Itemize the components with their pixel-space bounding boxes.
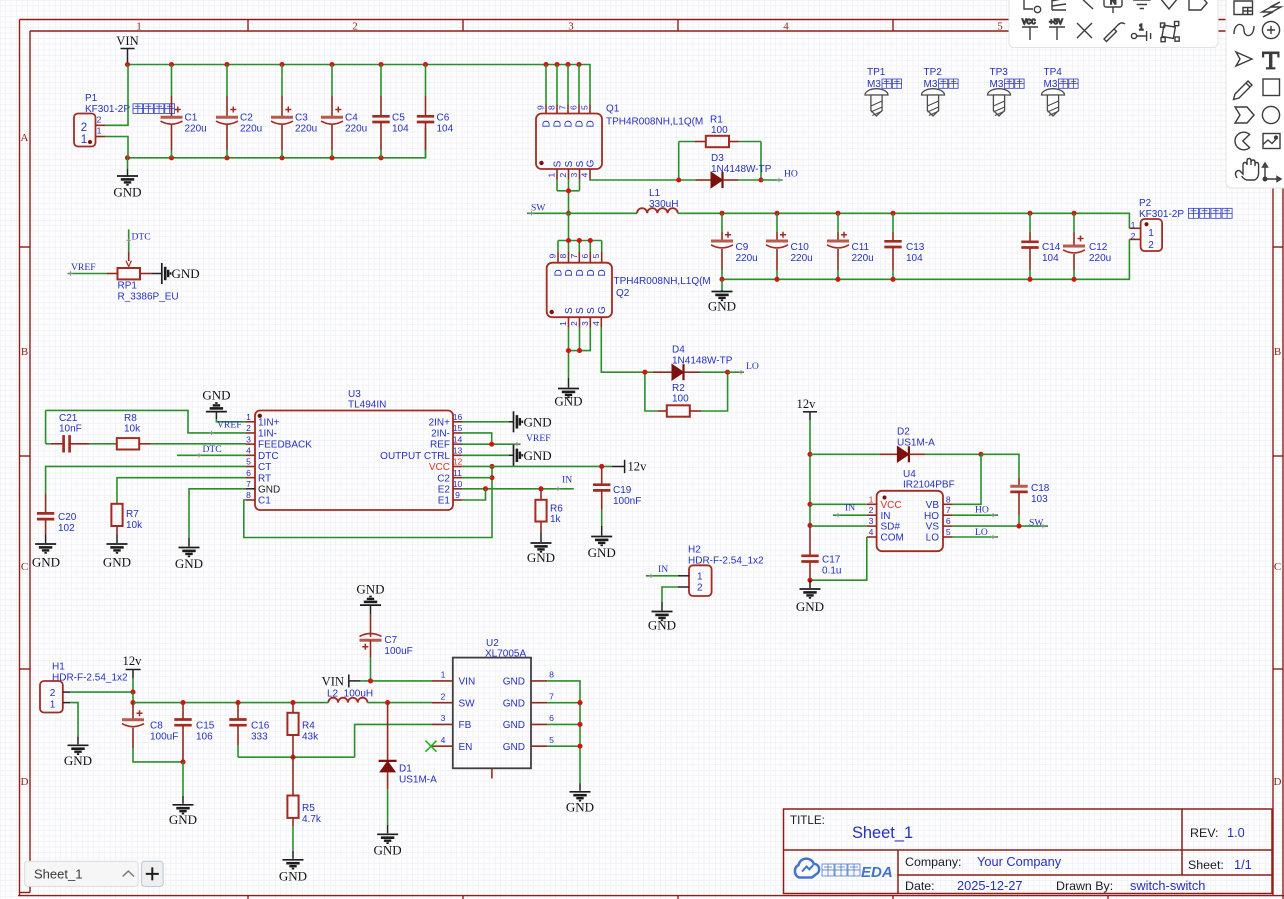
svg-text:D4: D4 — [672, 345, 685, 356]
wire Q2 gate to LO node — [601, 328, 645, 372]
capacitor C13 104 — [884, 213, 924, 279]
svg-text:5: 5 — [549, 735, 554, 745]
wire 12v bus U2 — [133, 700, 328, 705]
svg-text:9: 9 — [536, 105, 546, 110]
svg-text:D: D — [597, 269, 608, 276]
capacitor C16 333 — [229, 703, 269, 758]
net label HO — [761, 169, 798, 183]
svg-text:5: 5 — [591, 254, 601, 259]
svg-text:104: 104 — [437, 124, 454, 135]
diode D4 1N4148W-TP — [645, 345, 733, 381]
svg-text:1: 1 — [697, 572, 703, 583]
svg-text:C10: C10 — [791, 242, 810, 253]
wire Q2 sources to ground — [566, 328, 590, 378]
svg-text:IN: IN — [845, 502, 855, 513]
wire U2 GND pins — [547, 681, 582, 783]
svg-text:8: 8 — [558, 254, 568, 259]
wire SW output bus — [678, 213, 1130, 228]
ground GND U3 pin13 — [462, 445, 552, 466]
svg-text:S: S — [564, 307, 575, 314]
junction bottom bus dots — [125, 155, 384, 160]
svg-text:U3: U3 — [348, 389, 361, 400]
svg-text:2: 2 — [558, 173, 568, 178]
svg-text:GND: GND — [796, 599, 824, 614]
svg-text:H2: H2 — [688, 545, 701, 556]
power flag VIN — [116, 34, 138, 65]
ground GND C15 — [169, 762, 197, 827]
svg-text:D: D — [564, 120, 575, 127]
svg-text:1: 1 — [246, 412, 251, 422]
svg-text:16: 16 — [453, 412, 463, 422]
svg-text:7: 7 — [558, 105, 568, 110]
ground GND output — [708, 279, 736, 313]
svg-text:B: B — [21, 346, 28, 358]
svg-text:1: 1 — [97, 126, 102, 136]
ground GND U3 — [175, 538, 203, 571]
svg-text:C13: C13 — [906, 242, 925, 253]
svg-text:10: 10 — [453, 479, 463, 489]
svg-text:2: 2 — [81, 122, 87, 134]
svg-text:C11: C11 — [852, 242, 870, 253]
svg-text:Q2: Q2 — [616, 288, 630, 299]
svg-text:VCC: VCC — [429, 462, 450, 473]
svg-text:C19: C19 — [613, 485, 632, 496]
wire GND bottom bus — [128, 128, 426, 158]
capacitor C19 100nF — [593, 466, 641, 526]
svg-text:C12: C12 — [1089, 242, 1108, 253]
svg-text:FEEDBACK: FEEDBACK — [258, 440, 312, 451]
svg-text:VIN: VIN — [116, 34, 138, 48]
svg-text:5: 5 — [246, 457, 251, 467]
junction VIN bus dots — [125, 62, 582, 67]
svg-text:TPH4R008NH,L1Q(M: TPH4R008NH,L1Q(M — [606, 117, 703, 128]
svg-text:+5V: +5V — [1049, 19, 1063, 27]
svg-text:13: 13 — [453, 446, 463, 456]
svg-text:D2: D2 — [897, 427, 910, 438]
wire Q1 gate HO line — [590, 179, 679, 181]
svg-text:D: D — [586, 120, 597, 127]
svg-text:D: D — [564, 269, 575, 276]
svg-text:C1: C1 — [258, 496, 271, 507]
svg-text:TP2: TP2 — [924, 67, 943, 78]
svg-text:2: 2 — [441, 691, 446, 701]
svg-text:US1M-A: US1M-A — [399, 774, 437, 785]
svg-text:GND: GND — [64, 753, 92, 768]
wire P1.2 to VIN — [106, 65, 128, 126]
svg-text:1: 1 — [1139, 23, 1144, 32]
svg-text:VIN: VIN — [459, 677, 476, 688]
svg-text:220u: 220u — [852, 253, 874, 264]
svg-text:1IN+: 1IN+ — [258, 417, 280, 428]
svg-text:H1: H1 — [52, 662, 65, 673]
svg-text:HO: HO — [924, 511, 939, 522]
svg-text:9: 9 — [548, 254, 558, 259]
svg-text:EN: EN — [459, 742, 473, 753]
ground GND U3 pin1 — [202, 388, 246, 422]
ground GND input — [113, 158, 141, 200]
svg-text:0.1u: 0.1u — [822, 566, 841, 577]
svg-text:VREF: VREF — [217, 420, 242, 431]
svg-text:OUTPUT CTRL: OUTPUT CTRL — [380, 451, 450, 462]
svg-text:R_3386P_EU: R_3386P_EU — [118, 292, 179, 303]
svg-text:2IN-: 2IN- — [431, 429, 450, 440]
svg-text:104: 104 — [906, 253, 923, 264]
wire FB node — [238, 755, 355, 760]
svg-text:VREF: VREF — [71, 262, 96, 273]
svg-text:100uF: 100uF — [384, 646, 412, 657]
wire P1.1 to GND — [106, 137, 128, 158]
svg-text:Your Company: Your Company — [977, 854, 1062, 869]
svg-text:TP1: TP1 — [867, 67, 886, 78]
svg-text:C20: C20 — [58, 512, 77, 523]
svg-text:D: D — [575, 120, 586, 127]
svg-text:4.7k: 4.7k — [302, 814, 322, 825]
svg-text:EDA: EDA — [861, 864, 893, 881]
svg-text:GND: GND — [32, 555, 60, 570]
power flag 12v H1 — [123, 654, 143, 692]
capacitor C10 220u — [766, 213, 813, 279]
junction SW bus dots — [719, 211, 1076, 216]
svg-text:GND: GND — [524, 414, 552, 429]
svg-text:Sheet_1: Sheet_1 — [34, 867, 82, 882]
svg-text:C3: C3 — [295, 113, 308, 124]
svg-text:C9: C9 — [736, 242, 749, 253]
net label VREF REF — [462, 433, 551, 447]
resistor R4 43k — [287, 703, 319, 758]
svg-text:3: 3 — [869, 516, 874, 526]
svg-text:1: 1 — [869, 494, 874, 504]
svg-text:2: 2 — [246, 423, 251, 433]
ground GND R7 — [103, 535, 131, 570]
junction gate node dots — [676, 177, 763, 182]
connector P1 KF301-2P — [74, 93, 175, 147]
svg-text:GND: GND — [175, 556, 203, 571]
wire E2 IN node — [462, 486, 574, 491]
svg-text:GND: GND — [258, 484, 280, 495]
svg-text:G: G — [597, 306, 608, 314]
svg-text:C2: C2 — [437, 473, 450, 484]
svg-text:333: 333 — [251, 731, 268, 742]
testpoint TP4 M3 — [1042, 67, 1079, 116]
svg-text:Date:: Date: — [905, 879, 935, 893]
svg-text:7: 7 — [946, 505, 951, 515]
ground GND R5 — [279, 851, 307, 884]
svg-text:Sheet:: Sheet: — [1188, 858, 1224, 872]
svg-text:1: 1 — [1148, 228, 1154, 239]
svg-text:C14: C14 — [1042, 242, 1061, 253]
svg-text:3: 3 — [568, 21, 574, 33]
svg-text:2: 2 — [869, 505, 874, 515]
ground GND H2 — [648, 587, 678, 633]
svg-text:D: D — [553, 120, 564, 127]
capacitor C8 100uF — [122, 703, 183, 762]
svg-text:6: 6 — [549, 713, 554, 723]
svg-text:C4: C4 — [345, 113, 358, 124]
wire COM to ground — [810, 537, 867, 580]
svg-text:GND: GND — [172, 266, 200, 281]
svg-text:U4: U4 — [903, 469, 916, 480]
svg-text:4: 4 — [869, 527, 874, 537]
capacitor C17 0.1u — [801, 525, 841, 582]
svg-text:C7: C7 — [384, 635, 397, 646]
svg-text:1: 1 — [441, 670, 446, 680]
svg-text:1: 1 — [81, 134, 87, 146]
svg-text:1: 1 — [547, 173, 557, 178]
svg-text:SW: SW — [1029, 518, 1044, 529]
svg-text:TP4: TP4 — [1044, 67, 1063, 78]
svg-text:1: 1 — [50, 699, 56, 710]
capacitor C15 106 — [174, 703, 214, 765]
svg-text:6: 6 — [569, 105, 579, 110]
diode D2 US1M-A — [810, 427, 984, 463]
svg-text:220u: 220u — [345, 124, 367, 135]
svg-text:TPH4R008NH,L1Q(M: TPH4R008NH,L1Q(M — [614, 276, 711, 287]
svg-text:12v: 12v — [628, 459, 648, 473]
svg-text:GND: GND — [503, 720, 525, 731]
svg-text:S: S — [575, 160, 586, 167]
svg-text:CT: CT — [258, 462, 271, 473]
ic U4 IR2104PBF — [867, 469, 955, 551]
svg-text:P2: P2 — [1139, 198, 1152, 209]
wire C2 pin11 — [462, 477, 492, 479]
no-connect X EN pin — [426, 741, 437, 752]
svg-text:VCC: VCC — [1022, 19, 1036, 27]
resistor R8 10k — [117, 413, 246, 450]
svg-text:VS: VS — [926, 522, 940, 533]
ground GND C7 — [356, 582, 384, 615]
inductor L1 330uH — [637, 188, 678, 213]
wire VIN to U2 — [360, 678, 432, 683]
svg-text:104: 104 — [392, 124, 409, 135]
junction LO node dots — [642, 370, 730, 375]
svg-text:VCC: VCC — [881, 500, 902, 511]
net label DTC top — [127, 229, 151, 252]
svg-text:RT: RT — [258, 473, 271, 484]
svg-text:R2: R2 — [672, 383, 685, 394]
svg-text:3: 3 — [569, 173, 579, 178]
net label LO — [728, 361, 759, 374]
svg-text:TITLE:: TITLE: — [790, 814, 825, 827]
ground GND C20 — [32, 535, 60, 570]
svg-text:HO: HO — [975, 504, 989, 515]
wire RT to R7 — [117, 478, 246, 504]
svg-text:4: 4 — [441, 735, 446, 745]
wire 2IN- to REF — [462, 433, 492, 444]
svg-text:GND: GND — [202, 388, 230, 403]
svg-text:TP3: TP3 — [990, 67, 1009, 78]
wire output ground bus — [722, 239, 1129, 279]
capacitor C21 10nF — [46, 410, 117, 452]
svg-text:C: C — [1274, 561, 1281, 573]
svg-text:G: G — [586, 159, 597, 167]
svg-text:C18: C18 — [1031, 483, 1050, 494]
svg-text:R5: R5 — [302, 803, 315, 814]
svg-text:GND: GND — [356, 582, 384, 597]
svg-text:D: D — [542, 120, 553, 127]
svg-text:Drawn By:: Drawn By: — [1056, 879, 1113, 893]
wire SW bus left — [569, 212, 638, 214]
logo JLC EDA — [795, 859, 893, 881]
inductor L2 100uH — [327, 689, 373, 703]
svg-text:C17: C17 — [822, 555, 841, 566]
capacitor C7 100uF — [360, 614, 413, 681]
svg-text:FB: FB — [459, 720, 472, 731]
svg-text:2: 2 — [1131, 231, 1136, 241]
capacitor C3 220u — [271, 65, 317, 158]
capacitor C2 220u — [216, 65, 262, 158]
transistor Q2 TPH4R008NH — [547, 252, 711, 328]
svg-text:103: 103 — [1031, 494, 1048, 505]
svg-text:10nF: 10nF — [59, 423, 82, 434]
svg-text:220u: 220u — [240, 124, 262, 135]
svg-text:IN: IN — [881, 511, 891, 522]
svg-text:10k: 10k — [126, 520, 143, 531]
svg-text:E1: E1 — [438, 496, 451, 507]
svg-text:R7: R7 — [126, 509, 139, 520]
wire H1.2 to 12v — [70, 690, 135, 706]
wire FB divider — [355, 724, 432, 757]
svg-text:12v: 12v — [123, 654, 143, 668]
svg-text:15: 15 — [453, 423, 463, 433]
svg-text:6: 6 — [946, 516, 951, 526]
svg-text:R1: R1 — [710, 114, 723, 125]
svg-text:100uF: 100uF — [150, 731, 178, 742]
svg-text:1: 1 — [558, 321, 568, 326]
svg-text:5: 5 — [997, 21, 1003, 33]
svg-text:1N4148W-TP: 1N4148W-TP — [711, 164, 772, 175]
svg-text:1: 1 — [136, 21, 142, 33]
svg-text:5: 5 — [946, 527, 951, 537]
net label IN H2 — [646, 564, 678, 578]
title block text — [790, 814, 1252, 893]
svg-text:GND: GND — [554, 394, 582, 409]
svg-text:HO: HO — [784, 169, 798, 180]
wire C1-C2 tie — [244, 464, 495, 538]
svg-text:106: 106 — [196, 731, 213, 742]
net label DTC pin4 — [177, 444, 246, 458]
svg-text:REV:: REV: — [1190, 826, 1218, 840]
testpoint TP3 M3 — [988, 67, 1025, 116]
svg-text:L1: L1 — [649, 188, 661, 199]
svg-text:TL494IN: TL494IN — [348, 400, 386, 411]
svg-text:C2: C2 — [240, 113, 253, 124]
svg-text:IR2104PBF: IR2104PBF — [903, 480, 955, 491]
svg-text:VREF: VREF — [526, 433, 551, 444]
svg-text:C6: C6 — [437, 113, 450, 124]
svg-text:DTC: DTC — [258, 451, 279, 462]
svg-text:B: B — [1274, 346, 1281, 358]
svg-text:1k: 1k — [550, 514, 562, 525]
svg-text:GND: GND — [374, 843, 402, 858]
capacitor C20 102 — [37, 494, 77, 535]
svg-text:D: D — [575, 269, 586, 276]
svg-text:GND: GND — [503, 677, 525, 688]
svg-text:220u: 220u — [736, 253, 758, 264]
svg-text:7: 7 — [246, 479, 251, 489]
svg-text:7: 7 — [549, 691, 554, 701]
svg-text:SW: SW — [531, 203, 546, 214]
wire VCC 12v rail — [462, 464, 612, 469]
svg-text:220u: 220u — [791, 253, 813, 264]
capacitor C5 104 — [372, 65, 409, 158]
svg-text:D: D — [21, 776, 29, 788]
diode D3 1N4148W-TP — [679, 153, 772, 188]
svg-text:Sheet_1: Sheet_1 — [852, 824, 913, 842]
svg-text:A: A — [21, 132, 29, 144]
wire VIN top bus — [128, 65, 591, 105]
svg-text:102: 102 — [58, 523, 75, 534]
power flag 12v U4 — [797, 397, 817, 454]
svg-text:REF: REF — [430, 440, 450, 451]
ground GND RP1 — [151, 263, 199, 284]
svg-text:R6: R6 — [550, 504, 563, 515]
svg-text:2: 2 — [1148, 240, 1154, 251]
svg-text:220u: 220u — [185, 124, 207, 135]
capacitor C11 220u — [827, 213, 874, 279]
svg-text:D: D — [554, 269, 565, 276]
capacitor C14 104 — [1021, 213, 1060, 279]
resistor R2 100 — [645, 372, 728, 416]
svg-text:100: 100 — [672, 394, 689, 405]
wire VREF to 1IN- — [46, 410, 246, 435]
svg-text:Company:: Company: — [905, 855, 961, 869]
svg-text:C1: C1 — [185, 113, 198, 124]
svg-text:IN: IN — [562, 475, 572, 486]
svg-text:2: 2 — [97, 114, 102, 124]
svg-text:3: 3 — [246, 434, 251, 444]
wire Q1 drain drops — [546, 65, 579, 105]
svg-text:1.0: 1.0 — [1227, 825, 1245, 840]
power flag VIN U2 — [322, 674, 361, 688]
resistor R5 4.7k — [287, 757, 322, 851]
svg-text:GND: GND — [503, 742, 525, 753]
svg-text:8: 8 — [547, 105, 557, 110]
testpoint TP2 M3 — [922, 67, 959, 116]
svg-text:C: C — [21, 561, 28, 573]
svg-text:5: 5 — [580, 105, 590, 110]
svg-text:switch-switch: switch-switch — [1130, 878, 1205, 893]
ground GND U2 — [566, 783, 594, 814]
sheet tab bar — [25, 861, 164, 886]
testpoint TP1 M3 — [865, 67, 902, 116]
ground GND R6 — [527, 533, 555, 566]
svg-text:SW: SW — [459, 698, 476, 709]
svg-text:1: 1 — [1131, 220, 1136, 230]
svg-text:LO: LO — [746, 361, 759, 372]
wire CT to C20 — [46, 466, 246, 494]
svg-text:IN: IN — [658, 564, 668, 575]
svg-text:S: S — [575, 307, 586, 314]
wire VB bootstrap — [953, 454, 981, 504]
svg-text:3: 3 — [580, 321, 590, 326]
svg-text:GND: GND — [169, 812, 197, 827]
svg-text:11: 11 — [453, 468, 462, 478]
svg-text:GND: GND — [113, 185, 141, 200]
svg-text:GND: GND — [588, 545, 616, 560]
svg-text:12v: 12v — [797, 397, 817, 411]
svg-text:10k: 10k — [124, 423, 141, 434]
svg-text:220u: 220u — [295, 124, 317, 135]
svg-text:LO: LO — [926, 533, 940, 544]
connector H2 HDR-F-2.54_1x2 — [678, 545, 764, 597]
svg-text:2: 2 — [50, 688, 56, 699]
svg-text:S: S — [564, 160, 575, 167]
wire VCC U4 — [810, 503, 867, 505]
resistor R1 100 — [679, 114, 761, 180]
svg-text:S: S — [586, 307, 597, 314]
svg-text:DTC: DTC — [132, 232, 151, 243]
svg-text:C16: C16 — [251, 720, 270, 731]
